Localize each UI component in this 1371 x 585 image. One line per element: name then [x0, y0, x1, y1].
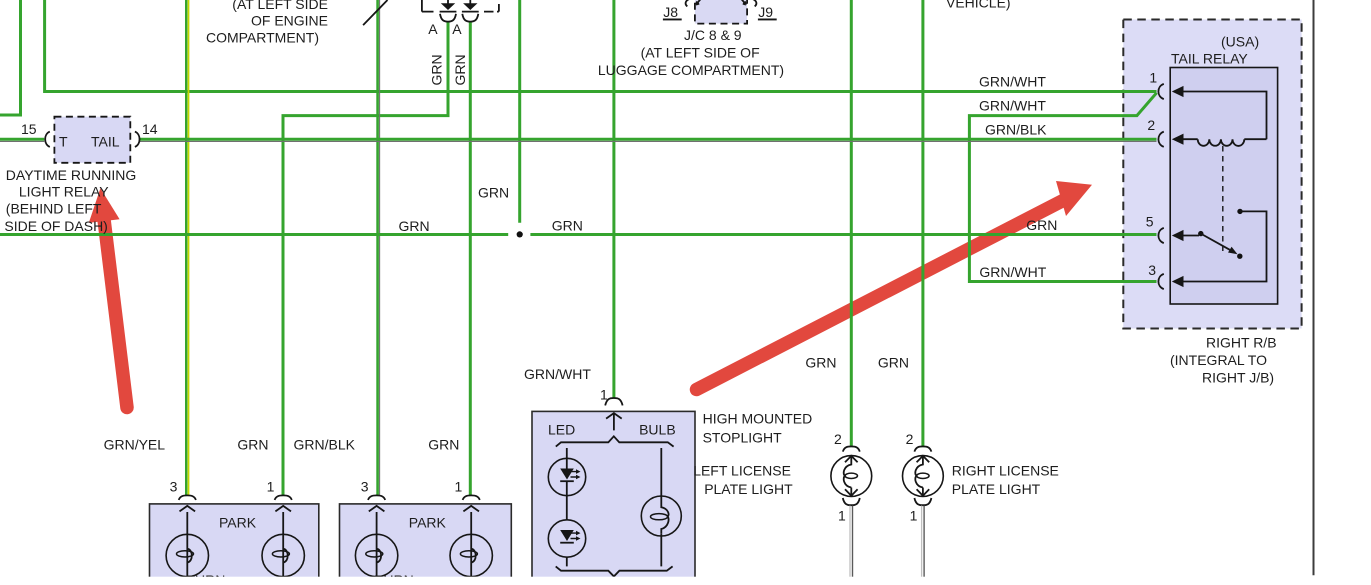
park bulb 2 circle [262, 534, 304, 576]
wire: GRN/YEL vertical to left park light pin 3 [185, 0, 187, 495]
svg-text:HIGH MOUNTED: HIGH MOUNTED [703, 410, 813, 426]
park light 2 pin 3 cup [368, 495, 385, 500]
daytime running light relay box (dashed) [54, 117, 130, 163]
svg-text:TAIL: TAIL [91, 133, 120, 149]
J/C cup left [686, 0, 690, 6]
svg-text:2: 2 [906, 431, 914, 447]
svg-text:LED: LED [548, 421, 575, 437]
wire: GRN from connector A(2) down to right park light pin 1 [469, 22, 472, 496]
park bulb 3 circle [355, 534, 397, 576]
svg-text:1: 1 [600, 387, 608, 403]
park light 2 pin 1 cup [463, 495, 480, 500]
svg-text:PARK: PARK [219, 514, 257, 530]
wire: GRN long horizontal left segment to junction [0, 233, 508, 236]
left license plate light: pin 2 top cup [843, 446, 860, 451]
svg-text:3: 3 [170, 478, 178, 494]
right license bulb down arrow [917, 489, 930, 495]
svg-text:GRN: GRN [429, 54, 445, 85]
stoplight top curly brace [556, 436, 674, 446]
svg-text:GRN: GRN [805, 354, 836, 370]
tail relay contact path to pin 3 [1182, 211, 1267, 281]
park bulb 3 filament ellipse [366, 551, 383, 557]
svg-text:15: 15 [21, 121, 37, 137]
right license plate light: pin 1 bottom cup [914, 498, 931, 505]
svg-text:STOPLIGHT: STOPLIGHT [703, 430, 783, 446]
J/C 8 & 9 junction box (dashed, cut off at top) [695, 0, 747, 24]
wire: GRN/WHT from J/B down-left corner along top to tail relay pin 1 [45, 0, 1157, 92]
svg-text:DAYTIME RUNNING: DAYTIME RUNNING [6, 167, 136, 183]
connector A arrow 2 (down) [469, 0, 471, 4]
BULB circle [641, 496, 681, 536]
daytime relay pin 15 cup [45, 132, 50, 147]
wire: GRN from connector A(1) down, left, down to left park light pin 1 [283, 22, 448, 496]
tail relay inner box [1170, 68, 1277, 305]
wire: GRN stub top-left (enters left edge, turns up) [0, 0, 21, 115]
svg-text:J/C 8 & 9: J/C 8 & 9 [684, 27, 742, 43]
right license bulb internal line [915, 456, 923, 496]
svg-text:T: T [59, 133, 68, 149]
svg-text:LEFT LICENSE: LEFT LICENSE [693, 463, 791, 479]
svg-text:GRN/WHT: GRN/WHT [979, 264, 1046, 280]
crossing slash near top of GRN/BLK wire [363, 0, 387, 25]
svg-text:(USA): (USA) [1221, 34, 1259, 50]
tail relay pin5 internal arrow and line to pivot [1172, 230, 1184, 241]
park bulb 2 filament ellipse [272, 551, 289, 557]
tail relay dashed armature link [1222, 146, 1224, 251]
svg-text:RIGHT LICENSE: RIGHT LICENSE [952, 463, 1059, 479]
svg-text:2: 2 [834, 431, 842, 447]
wire: black stripe [0, 140, 44, 142]
daytime relay pin 14 cup [135, 132, 140, 147]
wire: GRN/WHT vertical to high mounted stoplight pin 1 [612, 0, 615, 399]
svg-text:GRN/WHT: GRN/WHT [979, 74, 1046, 90]
svg-text:RIGHT J/B): RIGHT J/B) [1202, 370, 1274, 386]
tail relay lower contact dot [1237, 254, 1242, 259]
wire: GRN/BLK horizontal from daytime relay pin 14 to tail relay pin 2 [140, 138, 1157, 141]
svg-text:3: 3 [361, 478, 369, 494]
BULB branch filament loop [661, 499, 668, 534]
red callout arrow 2 (pointing to tail relay) [697, 181, 1093, 390]
left license plate light bulb circle [831, 456, 872, 497]
svg-text:A: A [452, 21, 462, 37]
wire: black stripe of GRN/BLK vertical [379, 0, 381, 495]
tail relay switch arm with arrowhead [1201, 234, 1230, 250]
high mounted stoplight LED/BULB box [532, 411, 695, 585]
svg-text:GRN: GRN [878, 354, 909, 370]
svg-text:COMPARTMENT): COMPARTMENT) [206, 30, 319, 46]
tail relay outer dashed box (RIGHT R/B) [1123, 20, 1301, 329]
park bulb 4 circle [450, 534, 492, 576]
left license bulb down arrow [845, 489, 858, 495]
tail relay pin3 internal arrow [1172, 276, 1184, 287]
connector A block dashes (cut off at top) [422, 0, 499, 12]
connector A cup 1 [440, 14, 456, 22]
svg-text:GRN/WHT: GRN/WHT [524, 366, 591, 382]
svg-text:1: 1 [455, 478, 463, 494]
right license bulb filament ellipse [917, 473, 929, 478]
svg-text:1: 1 [267, 478, 275, 494]
left license white wire down [849, 506, 851, 585]
connector A arrow 1 (down) [447, 0, 449, 4]
svg-text:GRN: GRN [452, 54, 468, 85]
park bulb 4 filament ellipse [460, 551, 477, 557]
svg-text:GRN: GRN [478, 185, 509, 201]
svg-text:GRN/WHT: GRN/WHT [979, 98, 1046, 114]
svg-text:OF ENGINE: OF ENGINE [251, 13, 328, 29]
right license plate light: pin 2 top cup [914, 446, 931, 451]
svg-text:GRN: GRN [399, 218, 430, 234]
svg-text:GRN: GRN [428, 436, 459, 452]
park bulb internals (arrows, filament lines, circles) [187, 512, 475, 577]
park light 1 pin1 internal up arrow [275, 506, 291, 512]
wire: GRN/WHT loop from tail relay pin 1 diagonal down to riser and pin 3 [969, 93, 1156, 282]
J9 label underline [758, 19, 777, 21]
LED 1 cathode bar [560, 480, 574, 482]
svg-text:J8: J8 [663, 4, 678, 20]
left license plate light: pin 1 bottom cup [843, 498, 860, 505]
park light 1 pin3 internal up arrow [180, 506, 196, 512]
wire: black stripe [140, 140, 1157, 142]
park light 1 pin 3 cup [179, 495, 196, 500]
svg-text:3: 3 [1148, 262, 1156, 278]
svg-text:PARK: PARK [409, 514, 447, 530]
J/C cup right [753, 0, 757, 6]
tail relay pin 1 cup [1158, 84, 1163, 99]
LED 2 emission arrows [571, 533, 578, 538]
right license bulb up arrow [917, 456, 930, 462]
LED 2 circle [548, 520, 585, 557]
svg-text:BULB: BULB [639, 421, 676, 437]
LED 2 triangle [560, 530, 574, 541]
park light 1 pin 1 cup [275, 495, 292, 500]
tail relay pin1 internal arrow and path to coil right side [1172, 86, 1184, 97]
svg-text:VEHICLE): VEHICLE) [946, 0, 1011, 10]
svg-text:A: A [428, 21, 438, 37]
wire: GRN/BLK horizontal into daytime relay pin 15 [0, 138, 44, 141]
park light 2 pin3 internal up arrow [369, 506, 385, 512]
svg-text:PLATE LIGHT: PLATE LIGHT [952, 481, 1041, 497]
J8 label underline [663, 19, 682, 21]
stoplight bottom curly brace [556, 566, 673, 576]
LED branch wire [566, 448, 568, 566]
svg-text:1: 1 [838, 507, 846, 523]
wire: yellow stripe of GRN/YEL [188, 0, 190, 495]
svg-text:5: 5 [1146, 213, 1154, 229]
LED 1 emission arrows [571, 472, 578, 477]
wire: GRN vertical to left license plate light pin 2 [850, 0, 853, 447]
connector A cup 2 [462, 14, 478, 22]
left license bulb filament ellipse [845, 473, 857, 478]
stoplight pin 1 cup [605, 398, 622, 405]
tail relay pin 2 cup [1158, 132, 1163, 147]
wire: GRN vertical into junction dot [518, 0, 521, 223]
node: junction dot [517, 231, 523, 237]
svg-text:2: 2 [1147, 117, 1155, 133]
svg-text:GRN/BLK: GRN/BLK [985, 121, 1047, 137]
J/C internal arrow stubs [696, 0, 746, 5]
svg-text:1: 1 [910, 507, 918, 523]
stoplight pin1 internal up arrow [606, 413, 622, 430]
svg-text:1: 1 [1149, 69, 1157, 85]
tail relay coil [1198, 139, 1245, 146]
right license plate light bulb circle [903, 456, 944, 497]
left license bulb up arrow [845, 456, 858, 462]
svg-text:(BEHIND LEFT: (BEHIND LEFT [6, 201, 102, 217]
right page border line [1313, 0, 1315, 575]
svg-text:(AT LEFT SIDE: (AT LEFT SIDE [232, 0, 328, 12]
svg-text:14: 14 [142, 121, 158, 137]
LED 1 triangle [560, 469, 574, 480]
svg-text:TAIL RELAY: TAIL RELAY [1171, 51, 1248, 67]
tail relay upper contact dot [1237, 209, 1242, 214]
LED 1 circle [548, 458, 585, 495]
BULB filament ellipse [651, 514, 668, 520]
svg-text:(INTEGRAL TO: (INTEGRAL TO [1170, 352, 1267, 368]
svg-text:LUGGAGE COMPARTMENT): LUGGAGE COMPARTMENT) [598, 62, 784, 78]
BULB branch wire [660, 448, 662, 566]
tail relay pin 5 cup [1158, 228, 1163, 243]
wire: GRN/BLK vertical to right park light pin 3 [376, 0, 379, 495]
svg-text:GRN/BLK: GRN/BLK [294, 436, 356, 452]
red callout arrow 1 (pointing to daytime running light relay) [89, 188, 127, 407]
svg-text:(AT LEFT SIDE OF: (AT LEFT SIDE OF [641, 45, 760, 61]
svg-text:GRN: GRN [552, 217, 583, 233]
LED 2 cathode bar [560, 542, 574, 544]
svg-text:RIGHT R/B: RIGHT R/B [1206, 334, 1277, 350]
wire: GRN vertical to right license plate light pin 2 [921, 0, 924, 447]
tail relay switch pivot dot [1198, 231, 1203, 236]
park bulb 1 circle [166, 534, 208, 576]
svg-text:GRN/YEL: GRN/YEL [104, 436, 166, 452]
tail relay pin 3 cup [1158, 274, 1163, 289]
left license bulb internal line [844, 456, 852, 496]
left park/turn light box [150, 504, 319, 585]
svg-text:GRN: GRN [237, 436, 268, 452]
right park/turn light box [340, 504, 512, 585]
wire: GRN long horizontal right segment to tail relay pin 5 [530, 233, 1156, 236]
svg-text:J9: J9 [758, 4, 773, 20]
park light 2 pin1 internal up arrow [463, 506, 479, 512]
tail relay pin2 internal arrow and line to coil [1172, 134, 1184, 145]
svg-text:GRN: GRN [1026, 217, 1057, 233]
park bulb 1 filament ellipse [177, 551, 194, 557]
svg-text:PLATE LIGHT: PLATE LIGHT [704, 481, 793, 497]
right license white wire down [921, 506, 923, 585]
svg-text:SIDE OF DASH): SIDE OF DASH) [4, 218, 107, 234]
svg-text:LIGHT RELAY: LIGHT RELAY [19, 183, 109, 199]
bottom crop white strip [0, 577, 1371, 585]
